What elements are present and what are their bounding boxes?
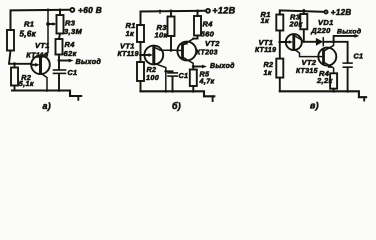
transistor VT2 KT315 (v) xyxy=(296,42,336,75)
capacitor C1 (v) xyxy=(334,42,364,92)
svg-text:5,6к: 5,6к xyxy=(20,30,37,39)
label v) xyxy=(310,100,319,110)
svg-text:+12В: +12В xyxy=(331,8,352,17)
resistor R5 (b) xyxy=(190,67,215,92)
resistor R1 xyxy=(7,20,37,51)
svg-text:в): в) xyxy=(310,100,319,110)
svg-text:560: 560 xyxy=(201,30,215,39)
resistor R3 (b) xyxy=(155,10,175,52)
svg-text:+12В: +12В xyxy=(212,6,235,16)
resistor R3 (v) xyxy=(289,9,308,42)
node output a xyxy=(58,55,61,63)
wire R1 to emitter node v xyxy=(278,31,286,44)
node rail R3 a xyxy=(59,9,62,12)
resistor R4 (b) xyxy=(193,10,214,39)
node base2 rail a xyxy=(47,9,50,12)
transistor VT1 unijunction KT119 (b) xyxy=(118,42,177,92)
wire top rail a xyxy=(11,10,71,30)
wire R1 to emitter node xyxy=(9,51,31,64)
svg-text:КТ119: КТ119 xyxy=(26,50,48,59)
svg-text:Д220: Д220 xyxy=(310,26,331,35)
svg-text:VT2: VT2 xyxy=(205,39,220,48)
output arrow a xyxy=(59,57,101,66)
resistor R2 (b) xyxy=(137,55,159,91)
node diode collector v xyxy=(332,40,335,43)
wire R1 to emitter node b xyxy=(139,42,144,56)
wire bottom rail b xyxy=(141,90,215,101)
capacitor C1 (a) xyxy=(54,61,78,91)
terminal +12V (v) xyxy=(324,8,351,17)
svg-text:5,1к: 5,1к xyxy=(19,79,34,88)
svg-text:20к: 20к xyxy=(289,20,304,29)
transistor VT2 KT203 (b) xyxy=(177,39,220,67)
svg-text:Выход: Выход xyxy=(210,62,235,70)
svg-text:10к: 10к xyxy=(155,31,169,40)
capacitor C1 (b) xyxy=(164,70,188,91)
svg-text:C1: C1 xyxy=(68,68,78,77)
node rail b xyxy=(159,10,162,14)
svg-text:100: 100 xyxy=(146,73,159,82)
node output b xyxy=(192,65,195,68)
svg-text:VT1: VT1 xyxy=(35,41,50,50)
svg-text:1к: 1к xyxy=(264,68,272,77)
potentiometer R3 xyxy=(46,10,82,36)
svg-text:R1: R1 xyxy=(24,20,34,29)
svg-text:КТ203: КТ203 xyxy=(196,50,218,57)
svg-text:Выход: Выход xyxy=(337,28,361,36)
svg-text:C1: C1 xyxy=(179,71,189,80)
transistor VT1 unijunction KT119 (v) xyxy=(255,34,318,57)
resistor R1 (v) xyxy=(261,10,284,31)
output arrow b xyxy=(193,62,235,70)
svg-text:+60 В: +60 В xyxy=(78,5,102,15)
svg-text:КТ119: КТ119 xyxy=(118,51,139,58)
svg-text:4,7к: 4,7к xyxy=(199,77,215,86)
node emitter a xyxy=(13,62,16,65)
svg-text:VT2: VT2 xyxy=(302,58,317,67)
svg-text:VT1: VT1 xyxy=(120,42,135,51)
svg-text:1к: 1к xyxy=(261,16,271,25)
wire top rail b xyxy=(141,11,207,25)
terminal +12V (b) xyxy=(206,6,236,16)
svg-text:2,2к: 2,2к xyxy=(316,76,333,85)
resistor R4 (v) xyxy=(316,69,337,92)
svg-text:C1: C1 xyxy=(354,51,364,60)
output arrow v xyxy=(334,28,362,42)
svg-text:а): а) xyxy=(43,101,52,111)
svg-text:КТ315: КТ315 xyxy=(296,68,318,75)
label a) xyxy=(43,101,52,111)
resistor R4 xyxy=(56,34,78,58)
terminal +6,0V xyxy=(70,5,102,15)
svg-text:3,3М: 3,3М xyxy=(64,27,82,36)
svg-text:R4: R4 xyxy=(203,20,214,29)
transistor VT1 unijunction KT119 (a) xyxy=(26,10,50,91)
wire bottom rail v xyxy=(280,90,366,101)
svg-text:1к: 1к xyxy=(126,29,136,38)
svg-text:R4: R4 xyxy=(65,40,76,49)
label b) xyxy=(172,101,181,111)
resistor R2 (v) xyxy=(264,42,284,91)
wire top rail v xyxy=(280,10,324,14)
svg-text:Выход: Выход xyxy=(76,57,102,66)
resistor R1 (b) xyxy=(126,21,145,42)
svg-text:КТ119: КТ119 xyxy=(255,47,276,54)
diode VD1 D220 xyxy=(304,18,334,46)
resistor R2 xyxy=(11,64,34,91)
svg-text:б): б) xyxy=(172,101,181,111)
wire bottom rail a xyxy=(12,89,81,100)
